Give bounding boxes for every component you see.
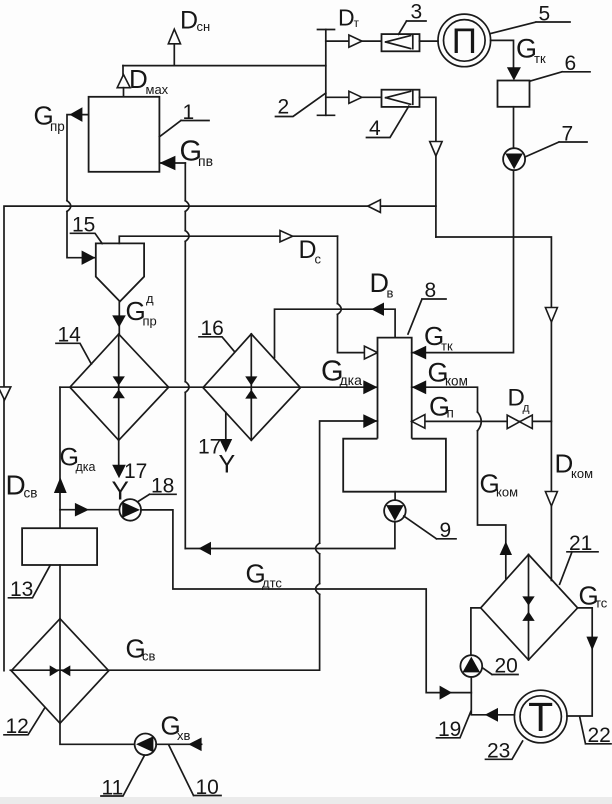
svg-text:тк: тк bbox=[441, 339, 453, 354]
svg-text:п: п bbox=[447, 406, 454, 421]
svg-text:17: 17 bbox=[124, 460, 147, 483]
svg-text:хв: хв bbox=[177, 728, 191, 743]
svg-text:дтс: дтс bbox=[262, 576, 282, 591]
svg-text:ком: ком bbox=[445, 374, 468, 389]
svg-text:D: D bbox=[338, 5, 355, 31]
svg-text:т: т bbox=[354, 16, 360, 30]
svg-text:D: D bbox=[180, 7, 198, 35]
svg-text:3: 3 bbox=[411, 1, 423, 24]
svg-text:св: св bbox=[24, 486, 38, 501]
svg-text:пв: пв bbox=[198, 153, 213, 169]
svg-text:сн: сн bbox=[197, 19, 211, 34]
svg-text:ком: ком bbox=[496, 485, 518, 500]
svg-text:с: с bbox=[315, 252, 322, 267]
svg-text:П: П bbox=[452, 22, 477, 61]
svg-text:тк: тк bbox=[534, 51, 546, 66]
svg-text:мах: мах bbox=[146, 82, 169, 97]
svg-text:д: д bbox=[146, 291, 154, 306]
svg-text:2: 2 bbox=[278, 96, 290, 119]
svg-text:тс: тс bbox=[595, 596, 608, 611]
svg-text:дка: дка bbox=[340, 372, 363, 388]
svg-text:д: д bbox=[523, 401, 530, 415]
svg-text:св: св bbox=[142, 649, 156, 664]
svg-text:пр: пр bbox=[50, 119, 65, 134]
svg-text:17: 17 bbox=[198, 436, 221, 459]
svg-text:4: 4 bbox=[369, 117, 381, 140]
svg-text:в: в bbox=[387, 286, 394, 301]
svg-text:Т: Т bbox=[528, 694, 553, 740]
svg-text:ком: ком bbox=[571, 466, 593, 481]
svg-text:пр: пр bbox=[143, 314, 157, 329]
svg-text:дка: дка bbox=[76, 460, 96, 474]
